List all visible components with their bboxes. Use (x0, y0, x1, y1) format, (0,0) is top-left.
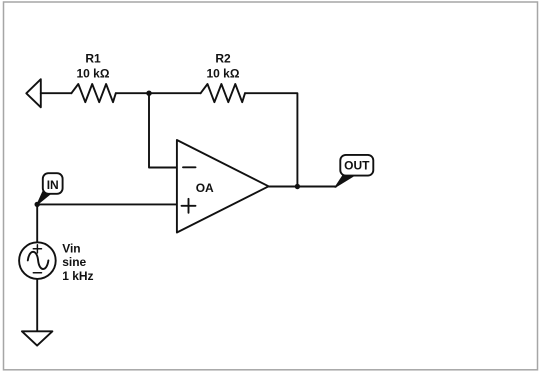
wire op-amp output to OUT tag (269, 186, 336, 188)
wire feedback node down to inverting input (149, 93, 177, 167)
resistor R2 (201, 84, 245, 102)
svg-text:OA: OA (196, 181, 214, 195)
net flag IN (37, 173, 63, 205)
source sine waveform (28, 252, 49, 269)
svg-text:R1: R1 (85, 52, 101, 66)
svg-text:10 kΩ: 10 kΩ (207, 66, 240, 80)
svg-text:sine: sine (62, 255, 86, 269)
svg-text:OUT: OUT (344, 159, 370, 173)
node junction dot (output net) (295, 184, 300, 189)
op-amp minus pin mark (183, 166, 196, 168)
svg-text:1 kHz: 1 kHz (62, 269, 93, 283)
wire source to ground (36, 279, 38, 331)
wire source top (node to Vin source) (36, 204, 38, 242)
svg-text:10 kΩ: 10 kΩ (77, 66, 110, 80)
op-amp plus pin mark (182, 199, 196, 213)
ground symbol (22, 331, 53, 345)
svg-text:IN: IN (47, 178, 59, 192)
port arrow (left node flag) (26, 79, 41, 107)
source plus polarity mark (33, 245, 41, 253)
svg-text:R2: R2 (215, 52, 231, 66)
node junction dot (R1/R2/feedback) (146, 91, 151, 96)
wire R1 to R2 (116, 92, 201, 94)
wire IN node to non-inverting input (37, 203, 177, 205)
resistor R1 (71, 84, 115, 102)
node junction dot (IN) (35, 202, 40, 207)
wire R2 to output net (right, down) (245, 93, 297, 186)
svg-text:Vin: Vin (62, 241, 80, 255)
source V1 circle (19, 242, 56, 279)
op-amp U1 (OA) triangle (177, 140, 269, 233)
source minus polarity mark (33, 272, 41, 274)
net flag OUT (335, 155, 374, 188)
wire arrow to R1 (41, 92, 72, 94)
